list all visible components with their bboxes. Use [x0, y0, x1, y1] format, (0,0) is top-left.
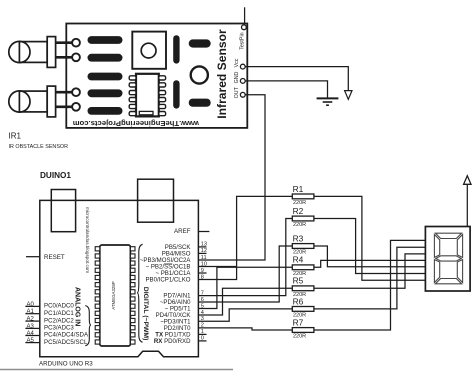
analog pin A0 stub	[25, 305, 39, 307]
svg-text:PB0/ICP1/CLKO: PB0/ICP1/CLKO	[145, 277, 190, 284]
analog pin A3 stub	[25, 327, 39, 329]
svg-text:R1: R1	[293, 184, 304, 194]
vertical SMD bars on sensor pcb (middle)	[173, 35, 179, 108]
svg-text:Vcc: Vcc	[234, 58, 240, 67]
svg-text:220R: 220R	[293, 222, 306, 228]
svg-text:R4: R4	[293, 255, 304, 265]
sensor pin pad Vcc	[240, 64, 245, 69]
7-segment digit segment g (middle)	[436, 256, 461, 261]
svg-text:Infrared Sensor: Infrared Sensor	[215, 29, 229, 119]
resistor R2	[292, 216, 314, 221]
wire R6 to display segment pin	[314, 247, 426, 309]
svg-text:IR OBSTACLE SENSOR: IR OBSTACLE SENSOR	[9, 144, 69, 150]
svg-text:OUT: OUT	[234, 86, 240, 98]
svg-text:microcontrolandos.blogspot.com: microcontrolandos.blogspot.com	[85, 207, 90, 273]
7-segment digit segment b (upper right)	[457, 235, 462, 258]
7-segment display body	[425, 227, 470, 292]
svg-text:R6: R6	[293, 296, 304, 306]
svg-text:AREF: AREF	[174, 228, 191, 235]
wire R4 to display segment pin	[314, 260, 426, 267]
pin 13 stub	[198, 246, 206, 248]
7-segment digit segment e (lower left)	[434, 260, 439, 283]
wire pin 3 to R6	[199, 309, 293, 321]
7-segment digit segment d (bottom)	[435, 279, 461, 284]
svg-text:RESET: RESET	[44, 254, 65, 261]
svg-text:GND: GND	[234, 71, 240, 83]
svg-text:PC2/ADC2: PC2/ADC2	[44, 317, 74, 324]
pin 12 stub	[198, 252, 206, 254]
resistor R1	[292, 194, 314, 199]
IR sensor module IR1 board outline	[66, 24, 247, 128]
svg-text:ARDUINO UNO R3: ARDUINO UNO R3	[39, 360, 93, 367]
analog pin A4 stub	[25, 335, 39, 337]
wire pin 10 stub to R1 net	[199, 266, 237, 268]
svg-text:ATMEGA328P: ATMEGA328P	[111, 281, 116, 310]
svg-text:PC0/ADC0: PC0/ADC0	[44, 303, 74, 310]
wire R2 to display segment pin	[314, 219, 426, 274]
SMD bars and LED hole (right column of sensor pcb)	[189, 39, 211, 106]
ground symbol	[317, 98, 339, 105]
wire pin 2 to R7	[199, 328, 293, 330]
RESET pin stub	[26, 256, 40, 258]
analog pin A1 stub	[25, 313, 39, 315]
svg-text:R2: R2	[293, 206, 304, 216]
pin 0 stub	[198, 340, 206, 342]
wire pin 5 to R4	[199, 267, 293, 308]
wire display common anode to power arrow	[466, 185, 468, 227]
wire pin 8 to R1	[199, 196, 293, 279]
svg-text:11: 11	[201, 255, 207, 261]
pin 9 stub	[198, 272, 206, 274]
svg-text:R7: R7	[293, 317, 304, 327]
svg-text:PC3/ADC3: PC3/ADC3	[44, 325, 74, 332]
sensor pin pad OUT	[240, 92, 245, 97]
wire R3 to display segment pin	[314, 246, 426, 267]
IR LED 2 of sensor module	[9, 86, 80, 117]
svg-text:R3: R3	[293, 233, 304, 243]
Arduino USB connector	[51, 190, 75, 232]
ATMEGA328P chip	[95, 245, 135, 346]
resistor R5	[292, 286, 314, 291]
svg-text:ANALOG IN: ANALOG IN	[74, 287, 81, 326]
wire pin 7 to R2	[199, 219, 293, 296]
resistor R3	[292, 244, 314, 249]
resistor R7	[292, 328, 314, 333]
Arduino UNO board outline	[40, 200, 199, 356]
brace for analog pin group	[85, 306, 91, 346]
AREF pin stub	[198, 231, 209, 233]
wire R5 to display segment pin	[314, 254, 426, 288]
7-segment digit segment c (lower right)	[457, 260, 462, 283]
resistor R4	[292, 265, 314, 270]
wire OUT to Arduino pin 11	[199, 95, 265, 260]
sensor pin pad TestPin	[242, 25, 247, 30]
wire pin 6 to R3	[199, 246, 293, 302]
sensor pin pad GND	[240, 79, 245, 84]
IC chip U-sensor (SOIC) on sensor pcb	[129, 74, 165, 117]
wire R7 to display segment pin	[314, 240, 426, 330]
trimmer potentiometer on sensor pcb	[132, 32, 166, 69]
svg-text:DUINO1: DUINO1	[40, 171, 71, 180]
wire GND to ground symbol	[245, 81, 327, 98]
power symbol (down arrow) on Vcc net	[345, 91, 352, 100]
7-segment digit segment a (top)	[435, 233, 461, 238]
analog pin A2 stub	[25, 320, 39, 322]
wire R1 to display segment pin	[314, 196, 426, 280]
IR LED 1 of sensor module	[9, 37, 80, 68]
svg-text:PC1/ADC1: PC1/ADC1	[44, 310, 74, 317]
svg-text:TestPin: TestPin	[240, 32, 246, 49]
wire pin 4 to R5	[199, 288, 293, 315]
cropped window border line at bottom	[0, 369, 233, 371]
svg-text:IR1: IR1	[9, 132, 22, 141]
svg-text:RX PD0/RXD: RX PD0/RXD	[154, 338, 191, 345]
wire from TestPin upward	[244, 7, 246, 25]
svg-text:PC5/ADC5/SCL: PC5/ADC5/SCL	[44, 339, 88, 346]
pin 1 stub	[198, 333, 206, 335]
Arduino power jack	[138, 179, 174, 222]
wire Vcc to power arrow	[245, 67, 348, 91]
analog pin A5 stub	[25, 342, 39, 344]
svg-text:220R: 220R	[293, 334, 306, 340]
brace for digital pin group	[137, 244, 143, 342]
7-segment digit segment f (upper left)	[434, 235, 439, 258]
svg-text:DIGITAL (~PWM): DIGITAL (~PWM)	[142, 287, 149, 341]
svg-text:PC4/ADC4/SDA: PC4/ADC4/SDA	[44, 332, 89, 339]
power symbol (up arrow) above display	[464, 176, 471, 185]
svg-text:R5: R5	[293, 276, 304, 286]
SMD component bars on sensor pcb (left column)	[88, 36, 123, 115]
svg-text:www.TheEngineeringProjects.com: www.TheEngineeringProjects.com	[73, 119, 200, 128]
resistor R6	[292, 307, 314, 312]
